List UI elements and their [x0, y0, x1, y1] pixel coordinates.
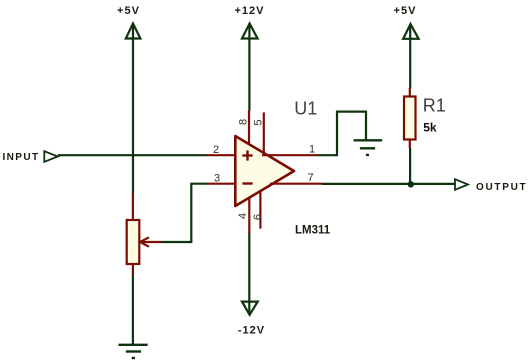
potentiometer wiper pin [141, 241, 163, 243]
ground symbol near pin 1 [354, 140, 383, 155]
wire pot bottom to ground [132, 275, 134, 345]
op-amp U1 body [235, 136, 294, 206]
wire wiper to pin 3: right, up, right [162, 184, 207, 242]
op-amp pin 5 stub [263, 112, 265, 153]
op-amp pin 1 stub (GND) [262, 154, 318, 156]
wire +5V left vertical [132, 25, 134, 193]
op-amp U1 pin 3 stub [207, 183, 236, 185]
potentiometer pin bottom stub [132, 264, 134, 276]
potentiometer wiper arrow [140, 237, 149, 246]
wire pin1 to gnd: horizontal, up, right, down [318, 112, 366, 156]
resistor R1 pin bottom [409, 140, 411, 149]
supply -12V arrow symbol (down) [242, 302, 258, 315]
ground symbol bottom left [119, 345, 148, 358]
op-amp minus marking [242, 182, 252, 184]
op-amp pin 8 stub (V+) [248, 110, 250, 145]
svg-text:2: 2 [213, 144, 219, 156]
wire pin7 to OUTPUT [322, 183, 455, 185]
potentiometer pin top stub [132, 193, 134, 221]
wire R1 to output junction [409, 148, 411, 185]
potentiometer body [127, 220, 140, 264]
op-amp pin 7 stub (OUT) [270, 183, 322, 185]
wire +12V vertical [248, 25, 250, 111]
op-amp U1 pin 2 stub [207, 154, 236, 156]
op-amp pin 4 stub (V-) [248, 198, 250, 234]
svg-text:+5V: +5V [117, 5, 140, 17]
op-amp plus marking [242, 150, 252, 160]
svg-text:3: 3 [214, 173, 220, 185]
svg-text:INPUT: INPUT [3, 152, 40, 163]
supply +5V left arrow symbol [126, 24, 141, 39]
junction dot at R1/output [408, 181, 414, 187]
INPUT port arrow [44, 151, 58, 162]
svg-text:8: 8 [238, 119, 250, 125]
svg-text:6: 6 [252, 214, 264, 220]
resistor R1 pin top [409, 88, 411, 97]
supply +12V arrow symbol [242, 24, 258, 39]
svg-text:+12V: +12V [235, 5, 265, 17]
op-amp pin 6 stub [259, 191, 261, 229]
svg-text:1: 1 [309, 143, 315, 155]
svg-text:5k: 5k [423, 121, 437, 135]
svg-text:4: 4 [237, 213, 249, 219]
svg-text:U1: U1 [294, 98, 317, 118]
svg-text:+5V: +5V [394, 5, 417, 17]
wire +5V right vertical [409, 26, 411, 89]
svg-text:LM311: LM311 [295, 225, 331, 237]
wire INPUT to pin 2 [58, 154, 208, 156]
svg-text:OUTPUT: OUTPUT [476, 182, 527, 193]
svg-text:7: 7 [307, 172, 313, 184]
wire pin4 to -12V [248, 233, 250, 314]
svg-text:5: 5 [253, 119, 265, 125]
svg-text:R1: R1 [423, 96, 446, 116]
svg-text:-12V: -12V [238, 325, 265, 337]
OUTPUT port arrow [455, 179, 468, 190]
resistor R1 body [404, 97, 416, 140]
supply +5V right arrow symbol [403, 24, 418, 39]
